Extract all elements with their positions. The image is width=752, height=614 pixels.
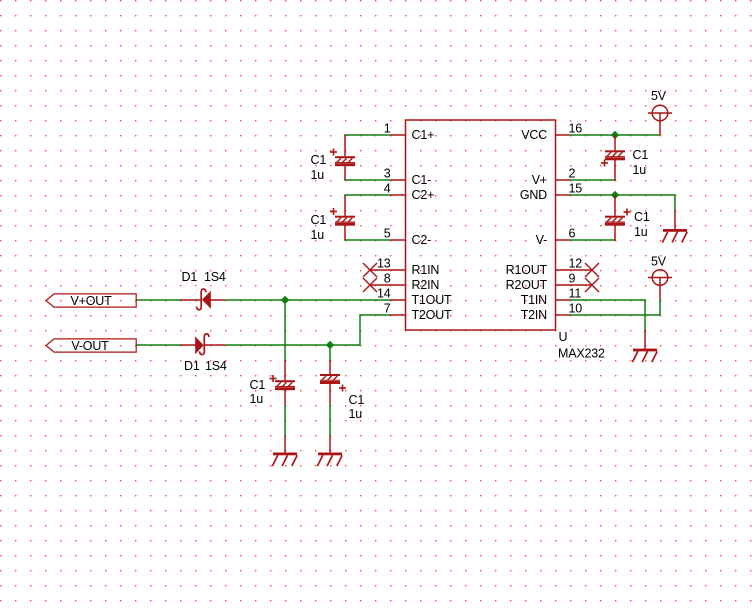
wire corner up to pin7 T2OUT <box>360 315 390 346</box>
svg-text:9: 9 <box>569 272 576 286</box>
power 5V symbol (top right) <box>648 89 672 135</box>
svg-text:5: 5 <box>384 227 391 241</box>
ground symbol (below T1IN jog) <box>632 330 657 362</box>
ground symbol (below cap D) <box>317 436 342 466</box>
svg-text:5V: 5V <box>651 255 667 269</box>
pin 11 T1IN stub <box>521 287 582 308</box>
pin 2 V+ stub <box>532 167 576 188</box>
wire pin15 GND to corner <box>570 195 675 211</box>
ground symbol (right of cap2) <box>662 211 687 243</box>
wire junction down to cap D <box>329 345 331 361</box>
svg-text:R2IN: R2IN <box>412 278 440 292</box>
pin 13 R1IN stub with no-connect X <box>363 257 439 278</box>
capacitor C1 (D) below V-OUT line <box>320 360 364 421</box>
pin 8 R2IN stub with no-connect X <box>363 272 439 293</box>
svg-text:1u: 1u <box>634 225 648 239</box>
node junction V+OUT-capC1 <box>281 296 289 304</box>
svg-text:10: 10 <box>569 302 583 316</box>
pin 16 VCC stub <box>521 122 582 143</box>
svg-text:T1IN: T1IN <box>521 293 547 307</box>
wire pin6 V- to cap bottom <box>570 239 616 241</box>
wire cap A bottom to pin3 <box>344 179 390 181</box>
svg-text:1: 1 <box>384 122 391 136</box>
svg-text:12: 12 <box>569 257 583 271</box>
pin 3 C1- stub <box>384 167 431 188</box>
svg-text:2: 2 <box>569 167 576 181</box>
svg-text:V+OUT: V+OUT <box>70 294 112 308</box>
pin 4 C2+ stub <box>384 182 434 203</box>
svg-text:C2-: C2- <box>412 233 432 247</box>
svg-text:1u: 1u <box>250 392 264 406</box>
svg-text:C1: C1 <box>633 148 649 162</box>
svg-text:R1IN: R1IN <box>412 263 440 277</box>
pin 10 T2IN stub <box>521 302 583 323</box>
svg-text:C1-: C1- <box>412 173 432 187</box>
svg-text:C1: C1 <box>349 393 365 407</box>
svg-text:1S4: 1S4 <box>204 270 226 284</box>
pin 14 T1OUT stub <box>377 287 452 308</box>
power 5V symbol (lower right) <box>648 255 672 300</box>
op-amp U1 MAX232 IC body <box>406 120 556 330</box>
pin 5 C2- stub <box>384 227 431 248</box>
svg-text:D1: D1 <box>182 270 198 284</box>
svg-text:MAX232: MAX232 <box>558 347 605 361</box>
svg-text:C1: C1 <box>311 213 327 227</box>
node junction V-OUT-capC1 <box>326 341 334 349</box>
wire pin16 VCC to 5V <box>570 134 660 136</box>
pin 9 R2OUT stub with no-connect X <box>506 272 599 293</box>
capacitor C1 (C) below V+OUT line <box>250 360 296 406</box>
pin 15 GND stub <box>520 182 582 203</box>
svg-text:C1: C1 <box>634 210 650 224</box>
wire V+OUT flag to diode D1 <box>136 299 181 301</box>
svg-text:6: 6 <box>569 227 576 241</box>
svg-text:T1OUT: T1OUT <box>412 293 453 307</box>
svg-text:1u: 1u <box>311 228 325 242</box>
wire pin2 V+ to cap bottom <box>570 179 616 181</box>
wire pin1 to C1 cap A <box>344 134 390 136</box>
svg-text:R2OUT: R2OUT <box>506 278 548 292</box>
svg-text:13: 13 <box>377 257 391 271</box>
wire diode D1 to pin14 T1OUT <box>225 299 390 301</box>
wire V-OUT flag to diode D1b <box>136 344 181 346</box>
svg-text:11: 11 <box>569 287 582 301</box>
svg-text:1u: 1u <box>633 163 647 177</box>
svg-text:U: U <box>559 330 568 344</box>
svg-text:VCC: VCC <box>521 128 547 142</box>
wire cap C bottom to gnd <box>284 405 286 436</box>
svg-text:C1+: C1+ <box>412 128 435 142</box>
capacitor C1 (right bottom) between GND net and V- <box>605 195 650 241</box>
svg-text:5V: 5V <box>651 89 667 103</box>
net flag V-OUT <box>46 339 136 353</box>
svg-text:V-: V- <box>536 233 547 247</box>
wire pin11 T1IN to gnd jog <box>570 300 645 331</box>
capacitor C1 (right top) between VCC net and V+ <box>601 135 648 181</box>
svg-text:GND: GND <box>520 188 547 202</box>
pin 7 T2OUT stub <box>384 302 452 323</box>
pin 6 V- stub <box>536 227 576 248</box>
svg-text:3: 3 <box>384 167 391 181</box>
svg-text:8: 8 <box>384 272 391 286</box>
wire cap D bottom to gnd <box>329 404 331 436</box>
svg-text:16: 16 <box>569 122 583 136</box>
svg-text:15: 15 <box>569 182 583 196</box>
svg-text:C2+: C2+ <box>412 188 435 202</box>
svg-text:V+: V+ <box>532 173 547 187</box>
svg-text:14: 14 <box>377 287 391 301</box>
svg-text:T2OUT: T2OUT <box>412 308 453 322</box>
ground symbol (below cap C) <box>272 436 297 466</box>
svg-text:D1: D1 <box>184 359 200 373</box>
wire pin10 T2IN to 5V jog <box>570 300 660 316</box>
pin 12 R1OUT stub with no-connect X <box>506 257 599 278</box>
pin 1 C1+ stub <box>384 122 434 143</box>
svg-text:4: 4 <box>384 182 391 196</box>
wire cap B bottom to pin5 <box>344 239 390 241</box>
svg-text:V-OUT: V-OUT <box>71 339 109 353</box>
wire pin4 to C1 cap B <box>344 194 390 196</box>
svg-text:1u: 1u <box>311 168 325 182</box>
svg-text:7: 7 <box>384 302 391 316</box>
svg-text:C1: C1 <box>311 153 327 167</box>
svg-text:T2IN: T2IN <box>521 308 547 322</box>
wire diode D1b to corner <box>225 344 360 346</box>
diode D1 1S4 (top, on V+OUT line) <box>180 270 226 310</box>
node junction GND-capC1 <box>611 191 619 199</box>
node junction VCC-capC1 <box>611 131 619 139</box>
wire junction down to cap C <box>284 300 286 361</box>
capacitor C1 (A) plates between pin1 and pin3 <box>311 135 356 182</box>
svg-text:C1: C1 <box>250 378 266 392</box>
diode D1 1S4 (bottom, on V-OUT line) <box>180 334 227 373</box>
capacitor C1 (B) plates between pin4 and pin5 <box>311 195 356 242</box>
svg-text:R1OUT: R1OUT <box>506 263 548 277</box>
net flag V+OUT <box>46 294 136 308</box>
svg-text:1S4: 1S4 <box>205 359 227 373</box>
svg-text:1u: 1u <box>349 407 363 421</box>
